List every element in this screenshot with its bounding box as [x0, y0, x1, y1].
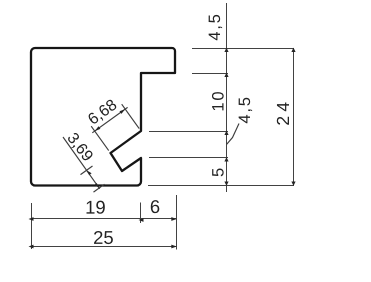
extension line notch bottom y158 — [149, 157, 228, 159]
leader line for 4,5 notch — [227, 124, 240, 145]
arrow 6 right — [171, 217, 177, 221]
extension line top edge y48 — [192, 48, 294, 50]
dimension line 3.69 diagonal — [63, 137, 100, 189]
extension line right x176.5 — [176, 195, 178, 250]
arrow chain y185.5 down — [224, 182, 228, 186]
extension tick at P1 along wall — [81, 166, 93, 175]
dimension text 3,69 — [65, 132, 94, 164]
arrow 19/6 middle — [139, 218, 144, 222]
extension tick at P2 along wall — [94, 184, 105, 192]
arrow chain y158 up — [224, 157, 228, 161]
arrow 25 right — [171, 245, 177, 249]
dimension text 10 — [212, 92, 224, 110]
dimension line 24 x293 — [293, 48, 295, 186]
dimension text 5 — [212, 169, 224, 177]
arrow 3.69 lower — [94, 183, 99, 188]
arrow 24 bottom down — [291, 182, 295, 186]
arrow 19 left — [29, 217, 34, 221]
arrow 3.69 upper — [87, 170, 92, 175]
extension tick from notch corner B — [91, 126, 109, 150]
dimension text 6 — [151, 200, 160, 213]
extension line notch top y131 — [149, 131, 228, 133]
arrow 24 top up — [291, 48, 295, 52]
dimension line 19 and 6 y219 — [31, 218, 177, 220]
arrow chain y131 up — [224, 131, 228, 135]
profile cross-section outline — [31, 48, 175, 186]
arrow 6.68 upper — [120, 109, 126, 114]
dimension text 25 — [94, 231, 113, 244]
extension line notch right x141 — [140, 203, 142, 224]
chain dimension line x226.5 — [226, 3, 228, 192]
dimension text 19 — [87, 201, 105, 214]
dimension text 24 — [277, 102, 289, 124]
dimension line 6.68 diagonal — [92, 107, 127, 132]
dimension text 6,68 — [87, 98, 119, 126]
extension line bottom left x31 — [31, 203, 33, 249]
dimension line 25 y246.5 — [31, 246, 177, 248]
extension line flange bottom y73 — [192, 73, 228, 75]
arrow 25 left — [29, 245, 34, 249]
extension line bottom edge y185.5 — [148, 185, 294, 187]
extension tick from notch corner A — [122, 104, 140, 128]
dimension text 4,5 top — [209, 15, 222, 40]
arrow chain y48 up — [224, 48, 228, 52]
arrow chain y73 up — [224, 73, 228, 77]
dimension text 4,5 leader — [239, 98, 252, 123]
arrow 6.68 lower — [95, 126, 101, 131]
